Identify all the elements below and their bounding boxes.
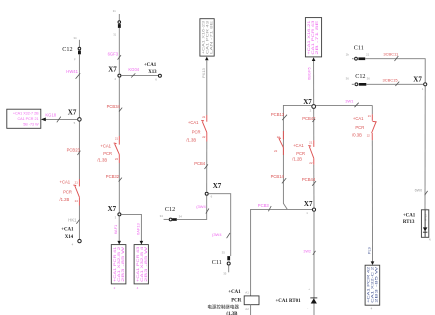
svg-text:+CA1 X32-7 2B: +CA1 X32-7 2B — [13, 112, 39, 116]
svg-text:PCB23: PCB23 — [67, 147, 81, 152]
svg-text:C11: C11 — [212, 259, 222, 266]
svg-text:PCB32: PCB32 — [106, 174, 120, 179]
svg-text:PCB44: PCB44 — [302, 177, 316, 182]
svg-text:34: 34 — [179, 214, 183, 218]
svg-text:A2: A2 — [245, 307, 249, 311]
svg-text:34: 34 — [74, 36, 77, 40]
reference box (left) — [7, 109, 41, 128]
reference box (bottom right, navy) — [365, 265, 380, 311]
svg-text:22: 22 — [115, 157, 119, 161]
wire D to bottom node — [313, 165, 315, 208]
wire to X13 — [121, 75, 158, 77]
svg-text:3W2: 3W2 — [303, 250, 311, 254]
svg-text:+CA1: +CA1 — [144, 63, 157, 68]
svg-text:HK1: HK1 — [68, 217, 77, 222]
svg-text:22: 22 — [367, 134, 371, 138]
svg-text:6GF3: 6GF3 — [108, 51, 119, 56]
svg-text:HW41: HW41 — [66, 69, 78, 74]
svg-text:21: 21 — [202, 115, 206, 119]
connector C11 (top right) — [346, 45, 370, 61]
svg-text:22: 22 — [274, 149, 278, 153]
svg-text:X7: X7 — [413, 76, 422, 84]
svg-text:C12: C12 — [165, 206, 175, 213]
connector C12 (top left) — [62, 36, 81, 61]
svg-text:+CA1: +CA1 — [61, 228, 74, 233]
svg-text:RT13: RT13 — [403, 220, 415, 225]
svg-text:21: 21 — [309, 140, 313, 144]
relay coil PCR — [207, 290, 259, 315]
svg-text:+CA1: +CA1 — [293, 143, 304, 148]
svg-text:21: 21 — [368, 114, 372, 118]
svg-text:31: 31 — [113, 9, 116, 13]
svg-text:X7: X7 — [108, 205, 117, 213]
svg-text:2b: 2b — [346, 53, 350, 57]
connector C11 (middle) — [212, 251, 230, 276]
svg-text:X7: X7 — [304, 200, 313, 208]
svg-text:PCR: PCR — [63, 190, 72, 195]
svg-text:6AF1: 6AF1 — [113, 224, 118, 234]
svg-text:KG18: KG18 — [45, 112, 56, 117]
svg-text:/1.3B: /1.3B — [97, 158, 107, 163]
svg-text:6BGF5: 6BGF5 — [306, 67, 311, 80]
wire D lower to RT01 — [313, 212, 315, 315]
reference box (top right, magenta) — [305, 18, 321, 61]
svg-text:PCR: PCR — [192, 129, 201, 134]
wire right to corner — [316, 104, 372, 106]
svg-text:+CA1: +CA1 — [228, 290, 241, 295]
svg-text:2B3 -85 W: 2B3 -85 W — [374, 265, 378, 303]
svg-text:(3W4: (3W4 — [212, 232, 222, 237]
svg-text:-: - — [307, 306, 308, 310]
wire B mid segment — [118, 78, 120, 136]
wire C11 to corner — [365, 59, 425, 82]
svg-text:PX13: PX13 — [201, 67, 206, 78]
svg-text:35: 35 — [222, 251, 226, 255]
svg-text:+: + — [308, 287, 310, 291]
svg-text:2B3 -85 W: 2B3 -85 W — [121, 245, 125, 282]
svg-text:CA1 PCR 21: CA1 PCR 21 — [17, 117, 38, 121]
svg-text:+CA1: +CA1 — [403, 213, 416, 218]
svg-text:/1.2B: /1.2B — [60, 197, 70, 202]
connector C12 (right) — [346, 73, 371, 86]
svg-text:PCR: PCR — [103, 151, 112, 156]
svg-text:3CBC15: 3CBC15 — [383, 78, 399, 83]
terminal X13 — [144, 63, 162, 82]
reference box (bottom middle 1) — [111, 245, 126, 291]
contact PCR (D) — [292, 140, 314, 165]
svg-text:X14: X14 — [65, 235, 74, 240]
svg-text:34: 34 — [160, 214, 164, 218]
connector (top middle) — [113, 9, 121, 36]
wire to relay coil — [251, 209, 312, 296]
svg-text:PCB14: PCB14 — [271, 174, 285, 179]
svg-text:PCR: PCR — [355, 125, 364, 130]
diode RT01 — [276, 287, 318, 311]
wire with arrow to box 2 — [121, 214, 141, 241]
contact PCR (A) — [60, 179, 80, 206]
connector C12 (middle) — [160, 206, 183, 221]
wire C lower segment — [206, 142, 208, 192]
wire with arrow to box 1 — [118, 216, 120, 241]
contact on bypass — [274, 131, 283, 155]
wire A mid segment — [78, 122, 80, 180]
svg-text:6AF13: 6AF13 — [135, 222, 140, 235]
svg-text:PL9: PL9 — [366, 246, 371, 254]
wire C12 to node — [366, 83, 423, 85]
svg-text:+CA1 RT01: +CA1 RT01 — [276, 299, 302, 304]
svg-text:PCB4: PCB4 — [194, 161, 206, 166]
wire C upper segment — [206, 60, 208, 115]
svg-text:X7: X7 — [108, 66, 117, 74]
svg-text:PCB3: PCB3 — [258, 203, 270, 208]
svg-text:22: 22 — [309, 161, 313, 165]
reference box (top, gray) — [200, 19, 214, 61]
bypass branch (left of wire D) — [283, 105, 311, 209]
svg-text:3CBC11: 3CBC11 — [383, 51, 399, 56]
svg-text:A1: A1 — [245, 290, 249, 294]
reference box (bottom middle 2) — [134, 245, 148, 290]
terminal X14 — [61, 228, 81, 247]
svg-text:+CA1: +CA1 — [100, 144, 111, 149]
svg-text:C12: C12 — [355, 73, 365, 80]
branch to C12 (middle) — [177, 196, 207, 220]
wire B lower segment — [118, 163, 120, 212]
svg-text:/1.2B: /1.2B — [292, 157, 302, 162]
svg-text:21: 21 — [115, 137, 119, 141]
svg-text:电源控制继电器: 电源控制继电器 — [207, 304, 239, 311]
contact PCR (B) — [97, 136, 119, 163]
diode module RT13 — [403, 210, 431, 242]
svg-text:+CA1: +CA1 — [353, 116, 364, 121]
svg-text:LAN -71 8E: LAN -71 8E — [210, 20, 214, 54]
svg-text:24: 24 — [75, 199, 79, 203]
svg-text:/0.3B: /0.3B — [352, 132, 362, 137]
svg-text:22: 22 — [202, 135, 206, 139]
wire A lower segment — [78, 206, 80, 240]
svg-text:21: 21 — [75, 180, 79, 184]
svg-text:2B -71 8E: 2B -71 8E — [315, 19, 319, 55]
contact PCR (C) — [186, 115, 206, 142]
svg-text:+CA1: +CA1 — [188, 120, 199, 125]
svg-text:X13: X13 — [148, 70, 157, 75]
svg-text:(3W4: (3W4 — [196, 204, 206, 209]
svg-text:31: 31 — [113, 33, 116, 37]
svg-text:5B -73 W: 5B -73 W — [23, 122, 39, 126]
svg-text:6W0: 6W0 — [415, 188, 423, 192]
branch to C11 (middle) — [209, 194, 231, 256]
svg-text:/1.3B: /1.3B — [186, 137, 196, 142]
svg-text:C12: C12 — [62, 46, 72, 53]
svg-text:X7: X7 — [68, 109, 77, 117]
svg-text:36: 36 — [367, 76, 371, 80]
wire D upper segment — [313, 61, 315, 104]
svg-text:PCR: PCR — [231, 299, 242, 304]
svg-text:21: 21 — [366, 53, 370, 57]
wire down to blue box with arrow — [371, 140, 373, 261]
wire A upper segment — [78, 54, 80, 117]
svg-text:N: N — [429, 237, 431, 241]
svg-text:KG04: KG04 — [128, 67, 139, 72]
svg-text:PCB34: PCB34 — [107, 104, 121, 109]
wire D direct segment — [313, 109, 315, 140]
svg-text:+CA1: +CA1 — [60, 180, 71, 185]
arrow into box — [41, 118, 46, 122]
svg-text:3W1: 3W1 — [345, 98, 354, 103]
svg-text:X7: X7 — [213, 182, 222, 190]
svg-text:PCR: PCR — [296, 151, 305, 156]
wire B upper segment — [118, 28, 120, 74]
svg-text:36: 36 — [346, 76, 350, 80]
svg-text:PCB13: PCB13 — [271, 112, 285, 117]
svg-text:35: 35 — [223, 272, 227, 276]
contact PCR (E) — [352, 114, 377, 140]
wire to reference box — [45, 118, 77, 120]
wire down to RT13 — [424, 87, 426, 210]
svg-text:2B3 -85 W: 2B3 -85 W — [144, 245, 148, 282]
svg-text:C11: C11 — [354, 45, 364, 52]
